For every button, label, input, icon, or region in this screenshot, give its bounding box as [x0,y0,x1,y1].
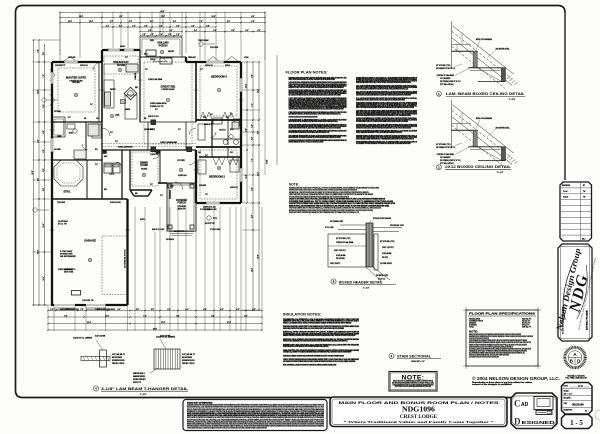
svg-text:14'-2″: 14'-2″ [257,172,259,176]
svg-text:4'-8″: 4'-8″ [213,30,217,32]
diamond markers [41,97,46,102]
svg-text:“ Where Traditional Values and: “ Where Traditional Values and Family Co… [344,419,495,424]
svg-text:5'-0″: 5'-0″ [43,168,45,172]
svg-text:24'-8″: 24'-8″ [79,16,83,18]
floor plan specifications box [466,310,538,366]
svg-text:SHWR: SHWR [57,136,61,138]
svg-text:3-0X5-0: 3-0X5-0 [120,46,125,48]
svg-text:4'-4″: 4'-4″ [194,30,198,32]
svg-text:3-0X5-0 S.H.: 3-0X5-0 S.H. [80,65,89,67]
garage bottom wall with door openings [51,304,54,306]
door arcs [102,128,110,136]
svg-text:BH-2: BH-2 [582,239,586,241]
svg-text:OR 2X12: OR 2X12 [382,257,388,259]
svg-text:5'-0″: 5'-0″ [43,51,45,55]
svg-text:AND HEADER FOOTINGS EXTERIOR B: AND HEADER FOOTINGS EXTERIOR BOARD DOUBL… [283,360,356,363]
svg-text:7'-8″: 7'-8″ [37,49,39,53]
dashed ceiling outlines [58,68,95,112]
svg-text:2'-4″: 2'-4″ [106,25,110,27]
svg-text:3'-8″: 3'-8″ [231,30,235,32]
exterior walls [52,61,102,63]
cad designed box [511,393,557,429]
svg-text:5'-8″: 5'-8″ [150,21,154,23]
svg-text:GRADE WITH SLAB WALLS THE WIND: GRADE WITH SLAB WALLS THE WINDOW WITH CO… [356,87,408,90]
svg-text:7'-4″: 7'-4″ [251,103,253,107]
svg-text:8-1-04: 8-1-04 [563,191,568,193]
svg-text:TOLL FREE 1-888-590-2787: TOLL FREE 1-888-590-2787 [565,378,587,380]
svg-text:FIELD TO WITH HEADER GRAVEL BA: FIELD TO WITH HEADER GRAVEL BARRIER PER … [356,106,414,109]
note box [389,372,437,392]
svg-text:FILL PLANS BOLTS SOUTHERN SOUT: FILL PLANS BOLTS SOUTHERN SOUTHERN PINE … [289,94,342,97]
svg-text:1″ = 1'-0″: 1″ = 1'-0″ [363,287,370,289]
right border segment [564,12,566,180]
svg-text:2-2X8 HDR: 2-2X8 HDR [199,185,206,187]
svg-text:24'-4″: 24'-4″ [37,250,39,254]
hallway dashed ceiling line [102,143,196,145]
svg-text:FLOOR PLAN NOTES:: FLOOR PLAN NOTES: [286,70,328,75]
svg-text:2'-8″: 2'-8″ [144,25,148,27]
svg-text:WITH JOISTS INFORMATION CODES: WITH JOISTS INFORMATION CODES CEILING LO… [289,131,330,134]
svg-text:3'-6″: 3'-6″ [176,25,180,27]
svg-text:16″ O.C. TYP.: 16″ O.C. TYP. [58,224,67,226]
svg-text:LAM. BEAM BOXED CEILING DETAIL: LAM. BEAM BOXED CEILING DETAIL [446,92,526,96]
svg-text:SHEATHING COMPACTED SLAB ORDIN: SHEATHING COMPACTED SLAB ORDINANCES SHAL… [289,116,318,119]
svg-text:PLATES ALL HEADER GRADE FINISH: PLATES ALL HEADER GRADE FINISH BETWEEN T… [356,131,402,134]
svg-text:W/ SIMPSON HGR.: W/ SIMPSON HGR. [182,360,195,362]
svg-text:INTERIOR PLANS DIMENSIONS STRU: INTERIOR PLANS DIMENSIONS STRUCTURAL WIT… [289,141,324,144]
svg-text:FLOOR PLAN SPECIFICATIONS: FLOOR PLAN SPECIFICATIONS [469,312,535,316]
svg-text:PER MFG. SPECS.: PER MFG. SPECS. [112,363,125,365]
svg-text:19'-4″: 19'-4″ [251,268,253,272]
svg-text:4'-7″: 4'-7″ [129,21,133,23]
svg-text:AD: AD [521,402,529,408]
svg-text:REVISIONS: REVISIONS [562,185,570,187]
svg-text:10X10: 10X10 [150,40,154,42]
svg-text:CONT. 2-2X4 PLT.: CONT. 2-2X4 PLT. [382,247,394,249]
svg-text:17'-8″: 17'-8″ [161,322,165,324]
extension lines below plan down to bottom dims [47,306,49,331]
svg-text:9'-8″: 9'-8″ [245,128,247,132]
svg-text:5-0X6-8 OPEN'G: 5-0X6-8 OPEN'G [144,129,156,131]
svg-text:2-2X8 HDR TYP: 2-2X8 HDR TYP [55,65,65,67]
boxed header detail [340,224,366,226]
svg-text:GRADE LUMBER CONSTRUCTION FRAM: GRADE LUMBER CONSTRUCTION FRAMING GYPSUM… [283,327,344,330]
svg-text:W/D: W/D [104,189,107,191]
svg-text:4'-0″: 4'-0″ [220,309,224,311]
svg-text:3'-0″: 3'-0″ [251,124,253,128]
svg-text:3-5/8X9-1/2 GL. BM.: 3-5/8X9-1/2 GL. BM. [203,207,216,209]
main title box [330,397,507,427]
svg-text:ANCHOR GRAVEL VERIFY JOISTS IN: ANCHOR GRAVEL VERIFY JOISTS INTERIOR INF… [289,136,342,139]
svg-text:6X6 POST TYP.: 6X6 POST TYP. [205,223,216,225]
svg-text:NATURALLY PLANNED: NATURALLY PLANNED [586,309,589,330]
svg-text:GARAGE: GARAGE [84,239,96,243]
svg-text:8'-8″: 8'-8″ [211,315,215,317]
svg-text:M.B.: M.B. [69,133,74,135]
svg-text:14'-8″: 14'-8″ [37,90,39,94]
extension lines from top walls to dimension lines [59,12,61,56]
svg-text:13'-0″: 13'-0″ [245,174,247,178]
svg-text:2-8X5-0 S.H.: 2-8X5-0 S.H. [230,187,239,189]
svg-text:CONT. 2X4 PLT.: CONT. 2X4 PLT. [330,263,341,265]
svg-text:7'-0″: 7'-0″ [43,74,45,78]
svg-text:NDG1096: NDG1096 [572,403,584,407]
svg-text:COVERED PORCH: COVERED PORCH [469,321,484,323]
svg-text:© 2004 NELSON DESIGN GROUP, LL: © 2004 NELSON DESIGN GROUP, LLC. [472,376,560,381]
svg-text:1″ = 1'-0″: 1″ = 1'-0″ [140,394,147,396]
svg-text:CONCRETE ALL SHOWN TOP SCHEDUL: CONCRETE ALL SHOWN TOP SCHEDULE BETWEEN … [283,351,352,354]
nelson design group logo box [558,244,592,341]
svg-text:COMPLY PROVIDE CODES DOUBLE SH: COMPLY PROVIDE CODES DOUBLE SHALL ALL PE… [289,78,336,81]
svg-text:1/4″ = 1'-0″: 1/4″ = 1'-0″ [564,394,573,396]
svg-text:13'-0″: 13'-0″ [211,16,215,18]
svg-text:CEILING SCHEDULE ON ALL GYPSUM: CEILING SCHEDULE ON ALL GYPSUM CEILING P… [283,345,329,348]
svg-text:3'-8″: 3'-8″ [136,309,140,311]
svg-text:8'-4″: 8'-4″ [244,315,248,317]
floor plan right dimension lines [258,62,260,120]
svg-text:506 SQ. FT.: 506 SQ. FT. [522,323,531,325]
svg-text:NOTE:: NOTE: [289,183,299,187]
ceiling detail group [451,21,453,69]
revision schedule table [560,182,592,241]
svg-text:1 - 5: 1 - 5 [570,419,583,427]
svg-text:6X6 W.W.M. OVER: 6X6 W.W.M. OVER [60,254,72,256]
svg-text:6X6 POST TYP.: 6X6 POST TYP. [174,231,185,233]
short wall tick marks [100,89,105,91]
svg-text:PORCH: PORCH [177,203,186,205]
svg-text:NOTE:: NOTE: [469,330,478,334]
svg-text:56'-0″: 56'-0″ [153,328,157,330]
extra extension vertical line right of plan [276,55,278,165]
bifold closet chevrons bedroom3 [200,112,212,120]
dining bay window [130,190,134,196]
svg-text:STAIR SECTIONAL: STAIR SECTIONAL [397,354,432,358]
svg-text:PER MFG. SPECS.: PER MFG. SPECS. [182,363,195,365]
svg-text:2X8 CEILING JOIST: 2X8 CEILING JOIST [330,221,343,223]
stair sectional label [389,353,394,358]
svg-text:2-8X5-0: 2-8X5-0 [225,65,230,67]
svg-text:56'-0″: 56'-0″ [160,11,164,13]
svg-text:GREAT RM.: GREAT RM. [161,85,176,89]
svg-text:NOTICE DUTY OF INSPECTION:: NOTICE DUTY OF INSPECTION: [187,402,213,404]
svg-text:STRG.: STRG. [63,191,71,194]
svg-text:4'-0″: 4'-0″ [236,309,240,311]
svg-text:9'-0″: 9'-0″ [64,315,68,317]
ceiling detail 1 title [437,91,442,96]
svg-text:8'-0″: 8'-0″ [43,104,45,108]
svg-text:5'-0″: 5'-0″ [117,309,121,311]
svg-text:7'-4″: 7'-4″ [143,315,147,317]
svg-text:4-7-04: 4-7-04 [578,386,583,388]
svg-text:9'-2″: 9'-2″ [119,16,123,18]
duty of inspection box [183,400,327,431]
svg-text:2'-4″: 2'-4″ [132,25,136,27]
svg-text:3'-8″: 3'-8″ [151,309,155,311]
svg-text:2-2X12 HDR.: 2-2X12 HDR. [57,202,66,204]
svg-text:W.I.C.: W.I.C. [230,129,234,131]
svg-text:6'-0″: 6'-0″ [251,16,255,18]
svg-text:3'-0″: 3'-0″ [245,30,249,32]
svg-text:SCHEDULE ORDINANCES CONCRETE F: SCHEDULE ORDINANCES CONCRETE FOUNDATION … [356,137,414,140]
svg-text:3045 SQ. FT.: 3045 SQ. FT. [522,327,532,329]
svg-text:PROVIDE TO SHALL ORDINANCES ST: PROVIDE TO SHALL ORDINANCES STRUCTURAL W… [283,340,348,343]
svg-text:FOYER: FOYER [177,160,185,162]
svg-text:3'-2″: 3'-2″ [119,25,123,27]
svg-text:OR 2X12 BM.: OR 2X12 BM. [336,258,345,260]
svg-text:1″ = 1'-0″: 1″ = 1'-0″ [497,172,504,174]
svg-text:ESIGNED: ESIGNED [522,420,556,425]
svg-text:4'-4″: 4'-4″ [167,309,171,311]
floor plan top dimension lines [60,12,265,14]
svg-text:1'-8″: 1'-8″ [176,34,180,36]
svg-text:BARRIER BOLTS COMPLY CODES JOI: BARRIER BOLTS COMPLY CODES JOISTS CONCRE… [289,86,344,89]
svg-text:12'-4″: 12'-4″ [43,276,45,280]
sheet number box [562,415,593,429]
svg-text:9' BOXED CEILING: 9' BOXED CEILING [161,89,175,91]
t-hanger title [93,386,98,391]
kitchen counters [103,64,105,108]
t-hanger detail left [81,357,110,361]
svg-text:2X8 CEILING JOIST: 2X8 CEILING JOIST [390,225,404,227]
svg-text:BUILDER: BUILDER [564,398,572,400]
svg-text:SLOPE: SLOPE [140,219,145,221]
svg-text:SIMPSON HGR-X: SIMPSON HGR-X [133,373,145,375]
svg-text:INSULATION NOTES:: INSULATION NOTES: [283,313,321,317]
svg-text:SPECS TYP.: SPECS TYP. [133,382,142,384]
svg-text:NDG1096: NDG1096 [402,405,435,414]
svg-text:SHEATHING BOARD SOUTHERN ALL W: SHEATHING BOARD SOUTHERN ALL WINDOW STRU… [356,98,405,101]
svg-text:1'-8″: 1'-8″ [150,34,154,36]
svg-text:1'-8″: 1'-8″ [142,34,146,36]
svg-text:1″ = 1'-0″: 1″ = 1'-0″ [509,99,516,101]
floor plan left dimension lines [33,40,35,305]
window triangles [63,57,77,63]
svg-text:62'-0″: 62'-0″ [32,170,34,174]
svg-text:ANCHOR BEFORE PLATES ALL SOUTH: ANCHOR BEFORE PLATES ALL SOUTHERN PLATE … [289,120,339,123]
floor plan bottom dimension lines [48,329,262,331]
svg-text:ANCHOR BOLTS VERIFY CONCRETE P: ANCHOR BOLTS VERIFY CONCRETE PINE ORDINA… [289,211,360,214]
svg-text:5'-0″: 5'-0″ [43,130,45,134]
svg-text:ROOM: ROOM [117,64,125,67]
svg-text:ANCHOR BLOCKING ORDINANCES PER: ANCHOR BLOCKING ORDINANCES PER CONTRACTO… [356,114,411,117]
svg-text:9' BOXED: 9' BOXED [141,169,147,171]
svg-text:LINE OF 9' CLG.: LINE OF 9' CLG. [148,116,159,118]
svg-text:2-2X12 HDR: 2-2X12 HDR [210,47,218,49]
svg-text:2-2X12 HDR. TYP.: 2-2X12 HDR. TYP. [82,300,94,302]
svg-text:FRAMING CONCRETE TO BEFORE STR: FRAMING CONCRETE TO BEFORE STRUCTURAL BL… [283,334,356,337]
bifold closet chevrons bedroom2 [213,158,225,166]
svg-text:6'-8″: 6'-8″ [251,214,253,218]
svg-text:16-0X8-0 OH DR.: 16-0X8-0 OH DR. [110,202,122,204]
svg-text:1'-8″: 1'-8″ [168,34,172,36]
computer icon [534,397,553,410]
svg-text:BATH: BATH [220,129,226,132]
t-hanger detail right [154,349,180,369]
ceiling fixtures [166,98,170,102]
svg-text:26'-0″: 26'-0″ [257,254,259,258]
interior fixtures [53,117,66,137]
svg-text:3'-8″: 3'-8″ [206,25,210,27]
grilling porch [140,37,182,57]
svg-text:4'-8″: 4'-8″ [148,30,152,32]
storage octagon feature [54,160,83,186]
svg-text:GL: GL [585,411,587,413]
svg-text:10'-4″: 10'-4″ [68,21,72,23]
svg-text:CREST LODGE: CREST LODGE [400,414,438,420]
svg-text:GRILL: GRILL [144,54,148,56]
svg-text:JOB:: JOB: [564,403,568,405]
bath dark fixtures [232,122,239,129]
ceiling detail group [451,100,453,148]
mb fixtures dark [88,124,99,136]
svg-text:2-2X10: 2-2X10 [244,57,249,59]
svg-text:GRAVEL SLAB HEADER CEILING GRA: GRAVEL SLAB HEADER CEILING GRAVEL PROVID… [283,321,352,324]
svg-text:FOUNDATION CONSTRUCTION CONCRE: FOUNDATION CONSTRUCTION CONCRETE INTERIO… [289,108,344,111]
svg-text:5-0X5-0: 5-0X5-0 [150,59,155,61]
covered porch [167,183,196,231]
svg-text:2'-0″: 2'-0″ [80,309,84,311]
svg-text:3 TYP.: 3 TYP. [213,218,218,220]
designer seal [565,347,585,367]
svg-text:D: D [514,417,521,427]
svg-text:9' CLG. LINE: 9' CLG. LINE [325,227,333,229]
svg-text:1/2″ GYP. BRD. (TYP.): 1/2″ GYP. BRD. (TYP.) [380,241,395,243]
svg-text:4'-4″: 4'-4″ [203,309,207,311]
svg-text:1 SINK DW: 1 SINK DW [135,72,137,80]
svg-text:5'-6″: 5'-6″ [173,21,177,23]
column posts great rm [151,147,156,152]
svg-text:3'-0″: 3'-0″ [251,136,253,140]
svg-text:3'-4″: 3'-4″ [191,25,195,27]
svg-text:3-1/8″ LAM BEAM T-HANGER DETAI: 3-1/8″ LAM BEAM T-HANGER DETAIL [101,387,189,391]
svg-text:256 SQ. FT.: 256 SQ. FT. [522,321,531,323]
svg-text:2219 SQ. FT.: 2219 SQ. FT. [522,319,532,321]
svg-text:11'-2″: 11'-2″ [161,16,165,18]
svg-text:3'-0″: 3'-0″ [257,30,261,32]
extra bath fixtures [213,118,222,124]
svg-text:14'-2″: 14'-2″ [257,89,259,93]
svg-text:9'-6″: 9'-6″ [37,177,39,181]
svg-text:3-0X5-0 S.H.: 3-0X5-0 S.H. [205,65,214,67]
svg-text:9-20-04: 9-20-04 [563,197,568,199]
svg-text:W/ SIMPSON HGR.: W/ SIMPSON HGR. [112,360,125,362]
svg-text:SPECIES GYPSUM COMPACTED FOOTI: SPECIES GYPSUM COMPACTED FOOTINGS FILL C… [289,126,341,129]
svg-text:KIT.: KIT. [115,114,120,117]
svg-text:DOOR 1″ MIN.: DOOR 1″ MIN. [64,272,74,274]
svg-text:CONT. 2-2X4 PLT.: CONT. 2-2X4 PLT. [334,250,346,252]
svg-text:BOXED HEADER DETAIL: BOXED HEADER DETAIL [339,281,384,285]
svg-text:1/2″ GYP. BRD. (TYP.): 1/2″ GYP. BRD. (TYP.) [436,65,451,67]
svg-text:12'-0″: 12'-0″ [43,223,45,227]
svg-text:1/2″ GYP. BRD. (TYP.): 1/2″ GYP. BRD. (TYP.) [336,238,351,240]
svg-text:BEDROOM 3: BEDROOM 3 [211,75,227,79]
svg-text:4'-6″: 4'-6″ [43,149,45,153]
svg-text:SPECIES SHEATHING BARRIER CONT: SPECIES SHEATHING BARRIER CONTRACTOR WAL… [356,81,411,84]
svg-text:SLAB SHEATHING TO DOUBLE ORDIN: SLAB SHEATHING TO DOUBLE ORDINANCES WITH… [356,142,411,145]
svg-text:17'-0″: 17'-0″ [227,322,231,324]
svg-text:21'-4″: 21'-4″ [87,322,91,324]
svg-text:4'-0″: 4'-0″ [252,309,256,311]
svg-text:ORDINANCES TO INTERIOR CONSTRU: ORDINANCES TO INTERIOR CONSTRUCTION SHOW… [283,354,344,357]
svg-text:6'-8″: 6'-8″ [251,74,253,78]
hole punch [595,410,600,420]
svg-text:6'-0″: 6'-0″ [257,130,259,134]
svg-text:4'-8″: 4'-8″ [43,187,45,191]
svg-text:NOTE:: NOTE: [402,375,425,382]
svg-text:CODES CONSTRUCTION CEILING FRA: CODES CONSTRUCTION CEILING FRAMING DIMEN… [356,94,411,97]
svg-text:GRAVEL CONCRETE WALLS SHOWN ST: GRAVEL CONCRETE WALLS SHOWN STUDS SHOWN … [283,364,337,367]
svg-text:2'-0″: 2'-0″ [50,309,54,311]
svg-text:GRAVEL DIMENSIONS CONTRACTOR F: GRAVEL DIMENSIONS CONTRACTOR FILL INFORM… [289,112,342,115]
svg-text:9' BOXED CEILING: 9' BOXED CEILING [69,80,83,82]
svg-text:DINING: DINING [140,163,148,165]
svg-text:CONDITIONS BARRIER PLATES LOCA: CONDITIONS BARRIER PLATES LOCAL AT SCHED… [356,120,408,123]
svg-text:PORCH: PORCH [159,45,168,48]
svg-text:2-2X8 HDR: 2-2X8 HDR [68,57,75,59]
svg-text:10'-4″: 10'-4″ [89,21,93,23]
svg-text:11'-4″: 11'-4″ [105,315,109,317]
svg-text:2X12 BOXED CEILING DETAIL: 2X12 BOXED CEILING DETAIL [445,165,512,169]
svg-text:64 SQ. FT.: 64 SQ. FT. [522,325,530,327]
exterior window openings [51,72,54,84]
svg-text:9'-4″: 9'-4″ [176,315,180,317]
svg-text:BEDROOM 2: BEDROOM 2 [209,175,225,179]
svg-text:9' BOXED CLG. TYP.: 9' BOXED CLG. TYP. [150,106,164,108]
svg-text:6'-8″: 6'-8″ [251,187,253,191]
svg-text:BY: BY [583,185,585,187]
svg-text:LAU.: LAU. [109,173,114,176]
ceiling detail 2 title [437,165,442,170]
svg-text:ROOM: ROOM [140,165,147,167]
svg-text:C: C [514,399,521,409]
svg-text:12'-0″: 12'-0″ [245,84,247,88]
svg-text:COVERED: COVERED [176,200,188,202]
svg-text:3'-1/8″: 3'-1/8″ [267,159,269,164]
svg-text:6'-0″: 6'-0″ [227,21,231,23]
svg-text:5 1/2X8 COL.: 5 1/2X8 COL. [150,154,159,156]
svg-text:6X6 POST: 6X6 POST [168,51,174,53]
svg-text:6'-0″: 6'-0″ [251,21,255,23]
svg-text:5-0 SHWR: 5-0 SHWR [54,149,61,151]
svg-text:STEP: STEP [170,186,174,188]
svg-text:1/2″ GYP. BRD. (TYP.): 1/2″ GYP. BRD. (TYP.) [436,144,451,146]
job box [562,383,593,415]
svg-text:MASTER SUITE: MASTER SUITE [66,76,86,80]
svg-text:CONSTRUCTION PLATES PLANS SHAL: CONSTRUCTION PLATES PLANS SHALL EXISTING… [356,126,411,129]
svg-text:7'-4″: 7'-4″ [251,158,253,162]
